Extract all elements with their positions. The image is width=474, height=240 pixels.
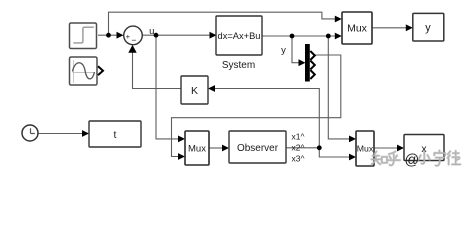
svg-text:dx=Ax+Bu: dx=Ax+Bu — [218, 31, 261, 41]
node: junction x-hat — [317, 145, 322, 150]
wire: sum output u to System — [143, 34, 211, 36]
arrowhead into t block — [82, 130, 89, 137]
watermark (drawn glyph approximations) — [372, 151, 461, 166]
arrowhead into Mux M2 input1 — [349, 136, 356, 143]
wire: Observer output x-hat to junction — [286, 147, 319, 149]
arrowhead into Mux M1 input2 — [178, 153, 185, 160]
wire: u branch down to Mux M1 input 1 — [156, 35, 179, 139]
Mux M1 (bottom left) — [185, 131, 209, 165]
arrowhead into sum left — [117, 32, 124, 39]
svg-text:y: y — [281, 45, 286, 56]
arrowhead into K (pointing left) — [208, 85, 215, 92]
svg-text:Mux: Mux — [347, 23, 368, 35]
arrowhead into scope x — [397, 145, 404, 152]
wire: K output feedback to sum — [133, 51, 182, 89]
svg-text:x2^: x2^ — [292, 143, 305, 153]
wire: Mux U2 output to scope y — [372, 27, 406, 29]
arrowhead into Mux U2 input1 — [335, 16, 342, 23]
Demux D1 (black bar) — [305, 44, 315, 82]
wire: y branch down into Demux D1 — [292, 36, 300, 63]
svg-text:Mux: Mux — [188, 144, 206, 155]
svg-text:x1^: x1^ — [292, 132, 305, 142]
glyph yu — [434, 151, 445, 166]
Mux M2 (bottom right) — [356, 131, 374, 166]
sine wave source block — [70, 57, 104, 85]
arrowhead into Mux M2 input2 — [349, 154, 356, 161]
glyph tu — [448, 151, 451, 164]
svg-text:System: System — [222, 60, 255, 71]
svg-text:K: K — [191, 85, 198, 97]
node: junction after Step — [106, 33, 111, 38]
wire: System output y across to Mux U2 input 2 — [262, 35, 336, 37]
svg-text:@: @ — [405, 153, 420, 169]
node: junction u — [154, 33, 159, 38]
wire: Mux M1 output to Observer — [209, 147, 223, 149]
wire: demux output x1 long path to Mux M1 input 2 — [172, 55, 341, 157]
svg-text:Observer: Observer — [237, 143, 279, 154]
svg-text:Mux: Mux — [357, 144, 374, 154]
arrowhead into scope y — [406, 24, 413, 31]
sum junction — [124, 26, 143, 45]
arrowhead into Observer — [222, 145, 229, 152]
wire: x-hat down to Mux M2 input 2 — [319, 148, 350, 157]
wire: reference feed up and across top to Mux U2 input 1 — [109, 12, 337, 35]
step source block — [70, 23, 97, 49]
node: junction y right — [326, 34, 331, 39]
node: junction y left — [290, 34, 295, 39]
wire: y branch down to Mux M2 input 1 — [328, 36, 350, 139]
svg-text:+: + — [126, 32, 130, 41]
glyph zhi — [372, 152, 381, 165]
scope y — [413, 13, 444, 41]
arrowhead into sum bottom from K — [128, 45, 136, 53]
t block — [89, 121, 141, 147]
Mux U2 (top) — [342, 12, 372, 44]
scope x — [404, 135, 444, 161]
svg-text:y: y — [425, 22, 431, 34]
Observer block — [229, 131, 286, 163]
arrowhead into Mux M1 input1 — [178, 136, 185, 143]
arrowhead into Demux D1 — [299, 59, 306, 66]
svg-text:u: u — [149, 26, 154, 37]
arrowhead into System — [210, 32, 217, 39]
arrowhead into Mux U2 input2 — [335, 33, 342, 40]
wire: Clock to t block — [38, 133, 83, 135]
svg-text:−: − — [131, 35, 136, 45]
wire: x-hat up to gain K — [214, 89, 319, 148]
svg-text:x3^: x3^ — [292, 154, 305, 164]
gain K block — [181, 76, 208, 104]
svg-text:t: t — [114, 129, 117, 141]
glyph hu — [388, 152, 401, 166]
wire: Mux M2 output to scope x — [374, 147, 398, 149]
clock block — [22, 125, 38, 141]
wire: step output to sum — [98, 34, 118, 36]
System state-space block — [216, 16, 262, 55]
glyph xiao — [419, 152, 430, 164]
